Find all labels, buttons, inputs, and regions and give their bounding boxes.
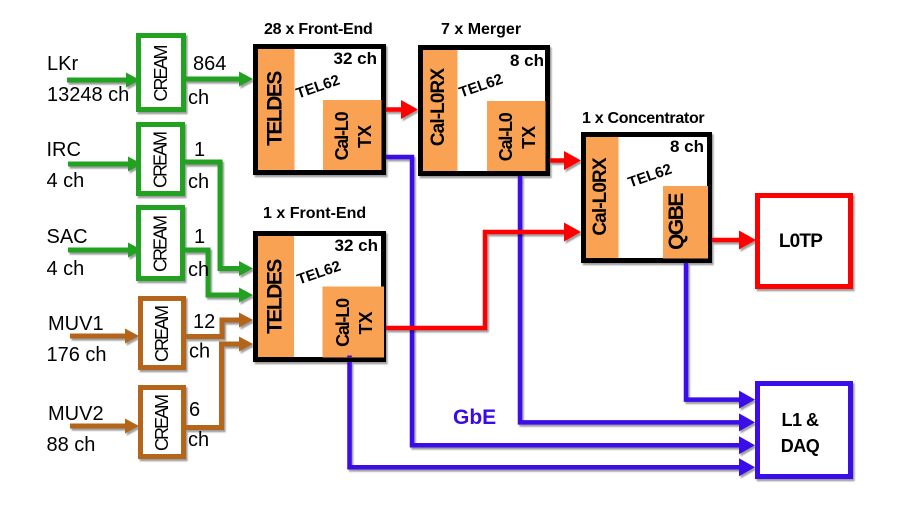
svg-text:7 x Merger: 7 x Merger	[441, 21, 521, 38]
svg-text:1 x Concentrator: 1 x Concentrator	[582, 110, 704, 127]
block L1 and DAQ	[758, 384, 851, 477]
svg-text:L1 &: L1 &	[781, 410, 819, 430]
svg-text:CREAM: CREAM	[152, 395, 172, 451]
svg-text:CREAM: CREAM	[151, 45, 171, 101]
svg-text:CREAM: CREAM	[151, 216, 171, 272]
svg-text:GbE: GbE	[453, 406, 496, 429]
wire red FE2 to Concentrator	[386, 223, 581, 329]
svg-text:Cal-L0RX: Cal-L0RX	[428, 68, 449, 146]
wire LKr input arrow	[67, 73, 140, 88]
svg-text:TX: TX	[356, 311, 376, 334]
svg-text:8 ch: 8 ch	[670, 137, 704, 156]
svg-text:L0TP: L0TP	[779, 231, 823, 252]
wire GbE Concentrator to L1-DAQ	[686, 263, 755, 409]
svg-text:LKr: LKr	[47, 53, 78, 75]
CREAM module 1 (LKr)	[139, 36, 184, 110]
svg-text:ch: ch	[188, 259, 209, 281]
wire red FE1 to Merger	[386, 100, 418, 119]
board Cal-L0 TX (FE2)	[323, 287, 385, 358]
svg-text:TX: TX	[355, 125, 375, 148]
svg-text:4 ch: 4 ch	[47, 170, 85, 192]
svg-text:176 ch: 176 ch	[47, 344, 107, 366]
wire GbE Merger to L1-DAQ	[520, 176, 755, 431]
block Concentrator (TEL62)	[584, 135, 710, 261]
block Merger (TEL62)	[421, 48, 548, 174]
svg-text:4 ch: 4 ch	[47, 258, 85, 280]
svg-text:QGBE: QGBE	[665, 193, 688, 250]
board QGBE (Concentrator)	[663, 186, 708, 259]
wire CREAM3 to Front-End 2	[185, 250, 253, 303]
svg-text:32 ch: 32 ch	[334, 49, 377, 68]
svg-text:8 ch: 8 ch	[510, 51, 544, 70]
svg-text:28 x Front-End: 28 x Front-End	[264, 21, 373, 38]
svg-text:ch: ch	[188, 429, 209, 451]
svg-text:6: 6	[189, 399, 200, 421]
svg-text:1: 1	[194, 139, 205, 161]
svg-text:1: 1	[194, 226, 205, 248]
wire GbE FE1 to L1-DAQ	[386, 157, 755, 454]
svg-text:ch: ch	[188, 171, 209, 193]
board Cal-L0RX (Merger)	[423, 50, 458, 171]
svg-text:32 ch: 32 ch	[335, 236, 378, 255]
wire CREAM5 to Front-End 2 (6 ch)	[186, 337, 253, 428]
svg-text:1 x Front-End: 1 x Front-End	[263, 205, 366, 222]
wire CREAM4 to Front-End 2 (12 ch)	[186, 313, 253, 337]
wire MUV2 input arrow	[70, 419, 139, 434]
wire GbE FE2 to L1-DAQ	[350, 356, 756, 477]
svg-text:Cal-L0RX: Cal-L0RX	[590, 157, 611, 235]
svg-text:CREAM: CREAM	[151, 132, 171, 188]
svg-text:ch: ch	[189, 341, 210, 363]
block Front-End 2 (TEL62)	[256, 234, 384, 360]
wire red Merger to Concentrator	[550, 151, 581, 170]
CREAM module 3 (SAC)	[139, 208, 183, 279]
svg-text:864: 864	[193, 53, 226, 75]
svg-text:TX: TX	[519, 126, 539, 149]
board Cal-L0 TX (FE1)	[323, 100, 382, 170]
svg-text:Cal-L0: Cal-L0	[333, 298, 353, 347]
svg-text:DAQ: DAQ	[781, 436, 820, 456]
svg-text:88 ch: 88 ch	[47, 434, 96, 456]
svg-text:12: 12	[193, 311, 215, 333]
svg-text:SAC: SAC	[47, 226, 88, 248]
wire CREAM2 to Front-End 2	[185, 162, 253, 276]
svg-text:ch: ch	[188, 87, 209, 109]
wire MUV1 input arrow	[70, 329, 139, 344]
CREAM module 5 (MUV2)	[141, 388, 184, 457]
CREAM module 4 (MUV1)	[141, 299, 184, 368]
board Cal-L0RX (Concentrator)	[586, 137, 619, 258]
svg-text:Cal-L0: Cal-L0	[332, 111, 352, 160]
svg-text:MUV2: MUV2	[48, 403, 104, 425]
wire red Concentrator to L0TP	[712, 231, 756, 250]
svg-text:13248 ch: 13248 ch	[47, 84, 129, 106]
block Front-End 1 (TEL62)	[256, 47, 384, 173]
board TELDES (FE2)	[258, 236, 294, 357]
svg-text:MUV1: MUV1	[48, 313, 104, 335]
block L0TP	[758, 196, 851, 287]
board TELDES (FE1)	[258, 49, 295, 170]
CREAM module 2 (IRC)	[139, 125, 183, 194]
svg-text:TELDES: TELDES	[264, 259, 287, 334]
board Cal-L0 TX (Merger)	[487, 101, 546, 171]
wire SAC input arrow	[68, 243, 142, 258]
svg-text:Cal-L0: Cal-L0	[496, 112, 516, 161]
svg-text:IRC: IRC	[47, 139, 81, 161]
wire IRC input arrow	[68, 157, 142, 172]
svg-text:CREAM: CREAM	[152, 306, 172, 362]
wire CREAM1 to Front-End (864 ch)	[186, 72, 253, 87]
svg-text:TELDES: TELDES	[264, 71, 287, 146]
